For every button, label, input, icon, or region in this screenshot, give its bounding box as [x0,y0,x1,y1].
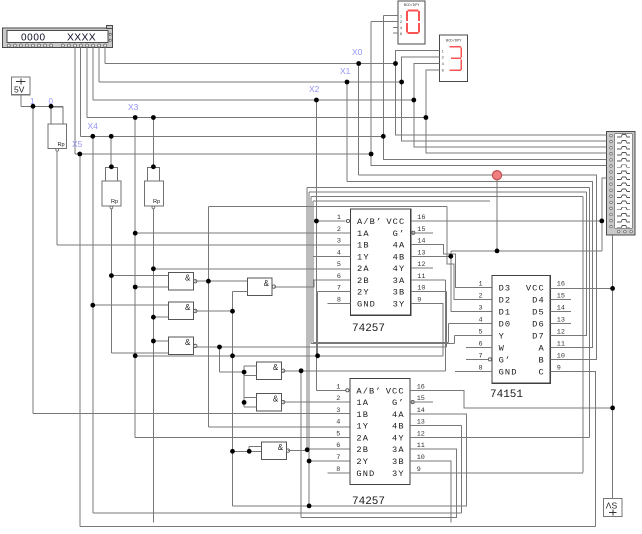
probe indicator [492,171,501,180]
wire U3A out to node [195,280,247,282]
switch bank connector [607,131,635,235]
wire X1 drop to A-line [346,82,348,181]
NAND gate U4C [262,442,290,460]
svg-text:4B: 4B [392,422,405,432]
wire 74151 B from rail [359,175,597,359]
NAND gate U4B [257,393,285,411]
wire U3A node up-line to 74151 D2 [208,207,492,300]
wire U2A in2 from chain [233,291,248,311]
wire U4A out to 74257-1 3A [283,280,445,371]
wire net vB to D7 rail [309,192,586,506]
wires display2 pins from X0..X3 [396,51,440,118]
wire U3B-out chain vertical [232,311,234,506]
display U6 BCD/DPY digit 0 [398,1,425,44]
svg-text:D1: D1 [499,308,512,318]
svg-text:VCC: VCC [386,386,405,396]
wire 74257-1 4B line to probe rail [411,255,451,257]
display1 pin stubs [371,16,398,34]
wire X0 drop to B-line [358,64,360,176]
wire 74257-2 4A wrap [233,414,467,506]
wire 74257-2 3Y to rail [410,472,583,474]
svg-text:A: A [538,343,544,353]
svg-text:5: 5 [479,328,483,336]
wires X0-X5 staircase to bank [371,64,607,166]
wire Rp1 to 74257-1 1B [57,151,350,245]
svg-text:3B: 3B [393,288,406,298]
wire Rp2 branch to gate U3A in1 [111,275,168,277]
svg-text:Rp: Rp [111,199,118,205]
svg-text:VCC: VCC [526,284,545,294]
wire node1 node0 [33,105,63,107]
74257-1 pin stubs and numbers [313,214,433,305]
display U7 BCD/DPY digit 3 [440,35,468,82]
svg-text:1: 1 [479,281,483,289]
svg-text:D0: D0 [499,319,512,329]
wire X4 branch to gate U3B in1 [93,304,169,306]
wire net vA gate7 chain [307,188,589,450]
wire +5V rail (right) [612,234,614,499]
svg-text:A/B’: A/B’ [357,217,382,227]
wire 74257-2 3B wrap [410,461,451,523]
svg-text:ΛS: ΛS [606,501,618,511]
wire 2B input 74257-2 [307,448,350,450]
svg-text:1A: 1A [357,229,370,239]
wire U4C input tie [249,446,261,451]
svg-text:X3: X3 [128,102,139,112]
wire 2Y 74257-2 tap [309,460,350,462]
svg-text:3: 3 [336,407,340,415]
wire +5V to node 1 [21,95,33,107]
svg-text:&: & [278,443,284,452]
NAND gate U4A [257,362,285,380]
svg-text:5: 5 [336,430,340,438]
svg-text:BCD/DPY: BCD/DPY [446,38,462,43]
svg-text:BCD/DPY: BCD/DPY [404,3,420,8]
svg-text:&: & [185,274,191,283]
svg-text:1: 1 [337,214,341,222]
wire mid rail to 74257-2 4Y [410,188,589,438]
resistor Rp2 [102,136,121,209]
svg-text:GND: GND [356,469,375,479]
power source AS 5V (rotated) [604,499,622,517]
svg-text:D7: D7 [532,331,545,341]
svg-text:D3: D3 [499,284,512,294]
svg-text:X1: X1 [340,66,351,76]
wire bus X2 [93,48,414,100]
svg-text:7: 7 [336,454,340,462]
svg-text:2Y: 2Y [356,457,369,467]
wire 74151 A from rail [347,181,593,347]
svg-text:GND: GND [357,300,376,310]
wire 74257-1 4A to 74151 D3 [411,245,492,288]
svg-text:X4: X4 [88,121,99,131]
wire Rp2 output rail [110,209,112,353]
wire 74151 VCC to +5V rail [550,287,612,289]
svg-text:A/B’: A/B’ [356,386,381,396]
svg-text:74257: 74257 [352,323,385,335]
wire IC1 pin1 tap [316,220,345,222]
svg-text:5V: 5V [14,85,25,95]
wire X4 rail down [93,136,462,513]
svg-text:X5: X5 [72,139,83,149]
wire X2 select rail to 74257 pin1s [316,100,345,390]
svg-text:2B: 2B [357,276,370,286]
word generator display box [3,26,113,48]
wire Rp3 branch to 74257-1 2A [153,268,350,270]
svg-text:16: 16 [557,281,565,289]
wire chain to gate7 line [233,450,262,452]
wire U3C out to 74257-1 3B [195,292,446,347]
svg-text:2B: 2B [356,445,369,455]
svg-text:3B: 3B [392,457,405,467]
wire U4A out down rail [300,371,302,518]
resistor Rp1 [48,106,67,151]
wire U3C out to U4A/U4B inputs [220,347,245,372]
wire U3A node down to 74257-2 1Y [208,281,350,427]
wire bus X1 [99,48,402,82]
svg-text:VCC: VCC [386,217,405,227]
NAND gate U3C [169,337,197,355]
wire U2A output to 74257-1 2B [274,280,350,287]
power source +5V [12,77,31,95]
wire bank pin8 to VCC rail [602,178,607,251]
wire 74257-1 3Y down to X3 line [411,304,443,356]
74151 pin stubs and numbers [455,281,571,373]
svg-text:4A: 4A [392,410,405,420]
wire Rp3 output rail [152,209,154,523]
wire U4B out to 74257-2 1A [283,401,350,403]
wire 74151 C from X5 bottom rail [550,371,595,526]
svg-text:D2: D2 [499,296,512,306]
svg-text:G’: G’ [499,355,512,365]
svg-text:Rp: Rp [153,199,160,205]
wire probe rail down to 74151 D1 [451,251,492,312]
svg-text:3A: 3A [393,276,406,286]
op-amp U5 74151 [490,276,550,401]
wire bus X5 [75,48,371,154]
svg-text:GND: GND [499,367,518,377]
svg-text:3A: 3A [392,445,405,455]
svg-text:X2: X2 [309,84,320,94]
wire X3 branch to gate U3A in2 [135,286,169,288]
wire net vC to 74151 Y [311,197,583,344]
op-amp U2 74257 #2 [350,379,410,509]
svg-text:1B: 1B [356,410,369,420]
svg-text:0000: 0000 [21,32,46,43]
wire Rp3 branch to gate U3C in1 [153,340,168,342]
svg-text:X0: X0 [352,47,363,57]
svg-text:1B: 1B [357,241,370,251]
svg-text:4A: 4A [393,241,406,251]
svg-text:4Y: 4Y [393,264,406,274]
NAND gate U3B [169,302,197,320]
svg-text:B: B [538,355,544,365]
svg-text:5: 5 [337,261,341,269]
svg-text:6: 6 [336,442,340,450]
svg-text:1Y: 1Y [356,422,369,432]
svg-text:2: 2 [337,226,341,234]
wire X3 branch to 74257-1 1A [135,232,350,234]
wire 74257-2 3A wrap [301,449,457,517]
svg-text:&: & [185,303,191,312]
wire node1 rail to 74257-2 1B [33,106,350,413]
svg-text:2Y: 2Y [357,288,370,298]
svg-text:D6: D6 [532,319,545,329]
svg-text:1A: 1A [356,398,369,408]
wire bus X4 [81,48,384,137]
svg-text:&: & [273,394,279,403]
svg-text:D4: D4 [532,296,545,306]
svg-text:W: W [499,343,505,353]
svg-text:Y: Y [499,331,505,341]
wire 74257-2 4B wrap [410,425,462,427]
svg-text:1: 1 [336,383,340,391]
svg-text:3Y: 3Y [392,469,405,479]
wire 74257-2 3Y rail up [582,197,584,473]
wire X3 rail down to 74257-2 2A [135,118,443,438]
wire probe line [451,250,602,252]
svg-text:G’: G’ [393,229,406,239]
wire probe drop [496,175,498,251]
op-amp U1 74257 #1 [351,209,411,335]
resistor Rp3 [145,118,164,209]
wire Rp2 to gate U3C in2 [111,352,168,354]
svg-text:4Y: 4Y [392,433,405,443]
wire X5 rail down [80,154,596,527]
wire bus X3 [87,48,426,118]
svg-text:2: 2 [479,293,483,301]
svg-text:D5: D5 [532,308,545,318]
wire net vD to 74151 D0 [313,201,492,342]
svg-text:3Y: 3Y [393,300,406,310]
svg-text:2A: 2A [357,264,370,274]
wire display1 pin2 down (X5) [370,22,372,155]
wire U3B out [195,310,232,312]
wire display1 pin1 down (X4) [382,16,384,137]
74257-2 pin stubs and numbers [328,383,433,474]
wire U4C out [288,450,307,452]
wire U4B input tie [244,397,257,407]
svg-text:Rp: Rp [58,142,65,148]
wire 74257-2 VCC to rail [410,390,612,408]
wire 74257-1 2Y jog down to X3 line [318,292,351,356]
NAND gate U3A [169,273,197,291]
wire Rp3 branch to gate U3B in2 [153,316,168,318]
wire 74257-1 VCC [411,220,602,222]
svg-text:3: 3 [337,238,341,246]
wire U4A input tie [244,366,257,403]
svg-text:&: & [264,279,270,288]
svg-text:2: 2 [336,395,340,403]
svg-text:3: 3 [479,305,483,313]
svg-text:4B: 4B [393,252,406,262]
svg-text:74151: 74151 [490,389,523,401]
svg-text:&: & [273,363,279,372]
wire bus X0 [105,48,396,64]
NAND gate U2A (upper middle) [247,278,275,296]
svg-text:XXXX: XXXX [67,32,96,43]
wire 74151 D7 from rail [550,192,586,335]
svg-text:2A: 2A [356,433,369,443]
svg-text:4: 4 [479,316,483,324]
svg-text:C: C [538,367,544,377]
svg-text:4: 4 [336,419,340,427]
svg-text:1Y: 1Y [357,252,370,262]
svg-text:G’: G’ [392,398,405,408]
svg-text:&: & [185,338,191,347]
svg-text:6: 6 [337,273,341,281]
